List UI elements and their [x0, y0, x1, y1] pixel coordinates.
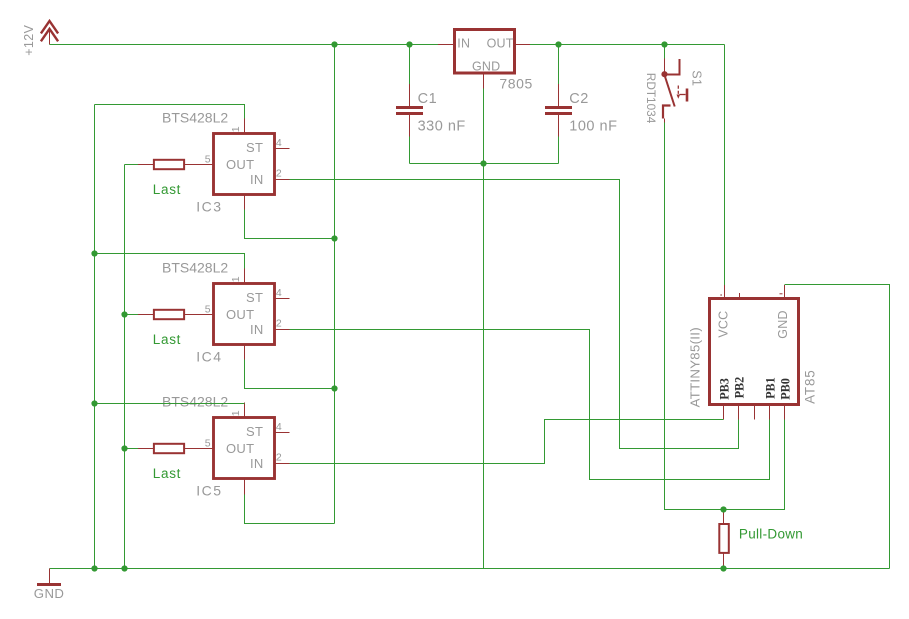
svg-text:100 nF: 100 nF	[569, 119, 617, 135]
wire net IC3 OUT to PB2	[290, 180, 739, 449]
svg-text:OUT: OUT	[487, 37, 514, 51]
svg-text:PB0: PB0	[778, 378, 792, 400]
ATTINY short top stub	[739, 293, 741, 299]
node junction PB0 net / Pull-Down	[720, 506, 726, 512]
IC5 bottom pin stub	[244, 479, 246, 495]
wire ground rail	[50, 568, 890, 570]
IC5 pin2 stub	[275, 463, 290, 465]
IC4 pin2 stub	[275, 329, 290, 331]
svg-text:C2: C2	[569, 91, 589, 107]
svg-text:5: 5	[205, 304, 211, 316]
wire 7805 GND down	[483, 89, 485, 164]
IC3 bottom pin stub	[244, 195, 246, 210]
node junction capacitor rail / GND net	[480, 160, 486, 166]
svg-text:1: 1	[230, 126, 242, 132]
wire IC3 bottom loop	[245, 210, 335, 239]
IC5 pin1 stub	[244, 403, 246, 418]
node junction +12V rail / S1	[661, 41, 667, 47]
IC IC3 box	[214, 134, 275, 195]
7805 pin IN stub	[438, 44, 454, 46]
svg-text:BTS428L2: BTS428L2	[162, 110, 228, 126]
wire IC4 bottom loop	[245, 360, 335, 389]
node junction +12V rail / C1	[406, 41, 412, 47]
IC3 pin2 stub	[275, 179, 290, 181]
IC ATTINY85 box	[710, 299, 799, 405]
7805 pin GND stub	[483, 75, 485, 89]
node junction Last rail / IC5 resistor	[121, 445, 127, 451]
resistor Last (IC4)	[125, 310, 185, 319]
node junction branch rail / IC4 OUT loop	[331, 385, 337, 391]
svg-text:VCC: VCC	[717, 311, 731, 338]
ATTINY bottom pin stub 3	[769, 405, 771, 420]
svg-text:PB2: PB2	[733, 377, 747, 399]
ATTINY bottom pin stub 1	[738, 405, 740, 420]
wire net IC5 OUT to PB3	[290, 420, 724, 464]
IC4 pin5 stub	[185, 314, 214, 316]
svg-text:+12V: +12V	[22, 24, 36, 55]
svg-text:5: 5	[205, 438, 211, 450]
svg-text:S1: S1	[689, 70, 703, 86]
IC3 pin4 stub	[275, 148, 290, 150]
wire left rail Last net	[124, 165, 126, 569]
wire ATTINY GND to ground rail	[785, 285, 890, 569]
switch S1 RDT1034	[661, 45, 687, 123]
svg-text:GND: GND	[776, 310, 790, 338]
svg-text:OUT: OUT	[226, 441, 254, 456]
node junction ground rail / Pull-Down	[720, 565, 726, 571]
ATTINY pin marker tick	[780, 293, 783, 295]
ATTINY bottom pin stub 4	[784, 405, 786, 420]
svg-text:IN: IN	[250, 322, 264, 337]
ATTINY pin VCC stub	[724, 285, 726, 299]
wire +12V down to ATTINY VCC	[724, 45, 726, 286]
svg-text:GND: GND	[34, 586, 65, 601]
wire IC5 bottom loop	[245, 495, 335, 524]
svg-text:ATTINY85(II): ATTINY85(II)	[688, 327, 703, 407]
ground symbol	[37, 569, 61, 587]
svg-text:RDT1034: RDT1034	[644, 73, 658, 124]
node junction ST rail / IC4 loop	[91, 250, 97, 256]
svg-text:Last: Last	[153, 466, 181, 481]
svg-text:ST: ST	[246, 424, 263, 439]
voltage regulator 7805 box	[455, 30, 515, 74]
node junction ST rail / IC5 loop	[91, 400, 97, 406]
IC3 pin1 stub	[244, 119, 246, 134]
svg-text:4: 4	[276, 287, 282, 299]
node junction Last rail / IC4 resistor	[121, 311, 127, 317]
node junction +12V rail / C2	[555, 41, 561, 47]
resistor Last (IC5)	[125, 444, 185, 453]
svg-text:5: 5	[205, 154, 211, 166]
node junction branch rail / IC3 OUT loop	[331, 235, 337, 241]
svg-text:7805: 7805	[499, 76, 533, 92]
svg-text:IC4: IC4	[196, 349, 222, 365]
wire +12V branch rail	[334, 45, 336, 524]
IC4 pin4 stub	[275, 298, 290, 300]
resistor Last (IC3)	[125, 160, 185, 169]
svg-text:2: 2	[276, 318, 282, 330]
svg-text:IN: IN	[250, 172, 264, 187]
svg-text:OUT: OUT	[226, 157, 254, 172]
svg-text:1: 1	[230, 410, 242, 416]
node junction +12V rail / branch rail	[331, 41, 337, 47]
svg-text:PB3: PB3	[717, 378, 731, 400]
svg-text:1: 1	[230, 276, 242, 282]
svg-text:GND: GND	[472, 60, 500, 74]
wire IC5 ST loop top (overdraw)	[95, 403, 245, 405]
7805 pin OUT stub	[515, 44, 531, 46]
IC5 pin5 stub	[185, 448, 214, 450]
wire IC3 ST loop top	[95, 105, 245, 119]
svg-text:AT85: AT85	[802, 369, 817, 403]
svg-text:C1: C1	[418, 91, 438, 107]
svg-text:4: 4	[276, 421, 282, 433]
svg-text:OUT: OUT	[226, 307, 254, 322]
wire +12V rail right	[530, 44, 725, 46]
wire IC4 ST loop top	[95, 254, 245, 269]
svg-text:2: 2	[276, 452, 282, 464]
node junction ground rail / ST rail	[91, 565, 97, 571]
ATTINY bottom pin stub 0	[723, 405, 725, 420]
svg-text:Pull-Down: Pull-Down	[739, 526, 803, 541]
IC3 pin5 stub	[185, 164, 214, 166]
svg-text:IN: IN	[457, 37, 470, 51]
wire IC5 ST loop top	[95, 403, 245, 404]
wire capacitor bottom rail	[410, 163, 559, 165]
wire left rail ST net	[94, 105, 96, 569]
svg-text:PB1: PB1	[763, 377, 777, 399]
svg-text:ST: ST	[246, 290, 263, 305]
svg-text:IN: IN	[250, 456, 264, 471]
svg-text:BTS428L2: BTS428L2	[162, 260, 228, 276]
capacitor C1	[396, 45, 423, 164]
IC4 pin1 stub	[244, 269, 246, 284]
capacitor C2	[545, 45, 572, 164]
IC5 pin4 stub	[275, 432, 290, 434]
wire switch to PB0 and pulldown	[665, 123, 785, 510]
IC IC5 box	[214, 418, 275, 479]
svg-text:IC5: IC5	[196, 483, 222, 499]
wire net IC4 OUT to PB1	[290, 330, 770, 480]
ATTINY bottom pin stub 2	[754, 405, 756, 420]
ATTINY pin marker tick 2	[720, 294, 722, 296]
ATTINY pin GND stub	[784, 285, 786, 299]
svg-text:4: 4	[276, 137, 282, 149]
IC4 bottom pin stub	[244, 345, 246, 360]
svg-text:IC3: IC3	[196, 199, 222, 215]
svg-text:Last: Last	[153, 332, 181, 347]
svg-text:BTS428L2: BTS428L2	[162, 394, 228, 410]
IC IC4 box	[214, 284, 275, 345]
node junction ground rail / Last rail	[121, 565, 127, 571]
svg-text:Last: Last	[153, 182, 181, 197]
svg-text:ST: ST	[246, 140, 263, 155]
+12V supply symbol	[41, 21, 58, 45]
svg-text:330 nF: 330 nF	[418, 119, 466, 135]
wire center rail to ground	[483, 164, 485, 569]
svg-text:2: 2	[276, 168, 282, 180]
wire +12V rail left	[50, 44, 439, 46]
resistor Pull-Down	[719, 510, 729, 569]
